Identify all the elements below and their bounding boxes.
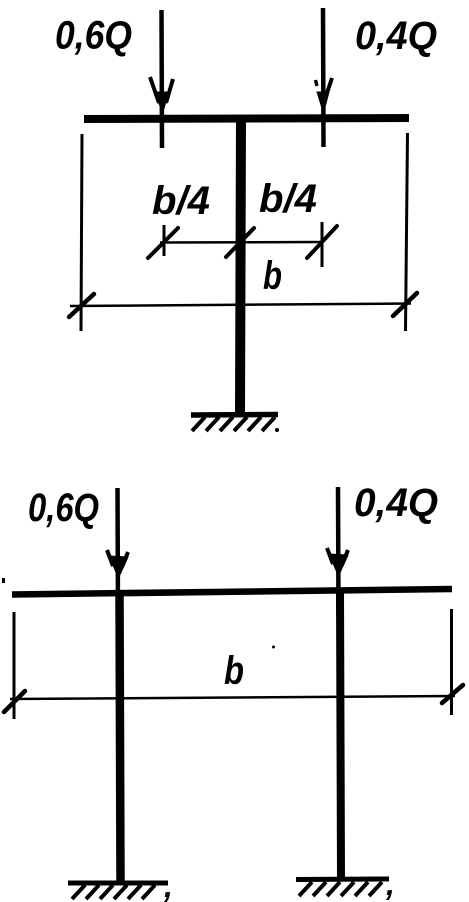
- svg-text:b: b: [263, 254, 282, 298]
- svg-text:0,4Q: 0,4Q: [355, 14, 437, 58]
- svg-text:b: b: [224, 649, 244, 693]
- svg-text:0,6Q: 0,6Q: [55, 14, 132, 58]
- svg-text:0,4Q: 0,4Q: [354, 481, 438, 525]
- svg-text:0,6Q: 0,6Q: [28, 486, 99, 530]
- svg-text:b/4: b/4: [152, 179, 210, 223]
- svg-text:,: ,: [385, 866, 395, 902]
- svg-text:,: ,: [163, 868, 173, 902]
- svg-text:b/4: b/4: [259, 177, 317, 221]
